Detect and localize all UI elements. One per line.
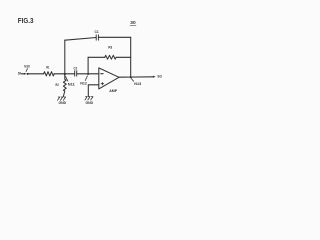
node N13 leader line [131, 79, 133, 82]
ground GND right [85, 97, 93, 100]
svg-text:SI: SI [18, 72, 21, 76]
wire N11 to C2 [65, 73, 75, 75]
node N10 junction dot [27, 73, 29, 75]
wire R1 to N11 [54, 73, 65, 75]
wire inner loop to R3 [88, 56, 105, 58]
svg-text:GND: GND [86, 101, 94, 105]
ground GND left [58, 97, 66, 100]
node N12 junction dot [87, 73, 89, 75]
resistor R1 [44, 72, 55, 76]
node N11 junction dot [64, 73, 66, 75]
node N13 junction dot [130, 76, 132, 78]
op-amp minus input sign [101, 73, 103, 75]
node SI input arrow [21, 73, 26, 75]
wire R3 to right vertical [116, 56, 131, 58]
op-amp plus input sign [101, 83, 103, 85]
node N10 leader line [26, 69, 27, 72]
node N12 leader line [85, 76, 87, 81]
node SO output arrowhead [153, 76, 156, 78]
wire op-amp plus input to ground [88, 85, 99, 97]
svg-text:N11: N11 [68, 82, 76, 87]
svg-text:C2: C2 [74, 66, 78, 70]
wire feedback top right [98, 36, 130, 38]
wire C2 to N12 [77, 73, 88, 75]
svg-text:R3: R3 [108, 45, 112, 49]
resistor R3 [105, 55, 116, 59]
svg-text:R1: R1 [46, 65, 49, 69]
svg-text:R2: R2 [56, 83, 59, 87]
svg-text:GND: GND [59, 101, 67, 105]
svg-text:AMP: AMP [109, 89, 117, 93]
wire N12 to op-amp [88, 73, 99, 75]
label 30 underline [130, 24, 136, 26]
node N11 leader line [65, 76, 68, 81]
wire feedback top left [65, 38, 96, 41]
svg-text:N10: N10 [24, 64, 30, 69]
wire feedback left vertical (N11 up) [64, 40, 66, 74]
svg-text:FIG.3: FIG.3 [18, 16, 34, 25]
svg-text:N13: N13 [134, 81, 142, 86]
svg-text:N12: N12 [80, 81, 87, 86]
wire inner loop left vertical (N12 up) [87, 57, 89, 74]
capacitor C1 [96, 35, 98, 40]
svg-text:C1: C1 [95, 30, 99, 34]
wire N10 to R1 [28, 73, 44, 75]
op-amp AMP [99, 68, 119, 89]
wire feedback right vertical [130, 37, 132, 77]
capacitor C2 [75, 71, 77, 76]
resistor R2 [63, 74, 66, 97]
svg-text:SO: SO [157, 74, 162, 78]
wire op-amp output [119, 76, 154, 78]
